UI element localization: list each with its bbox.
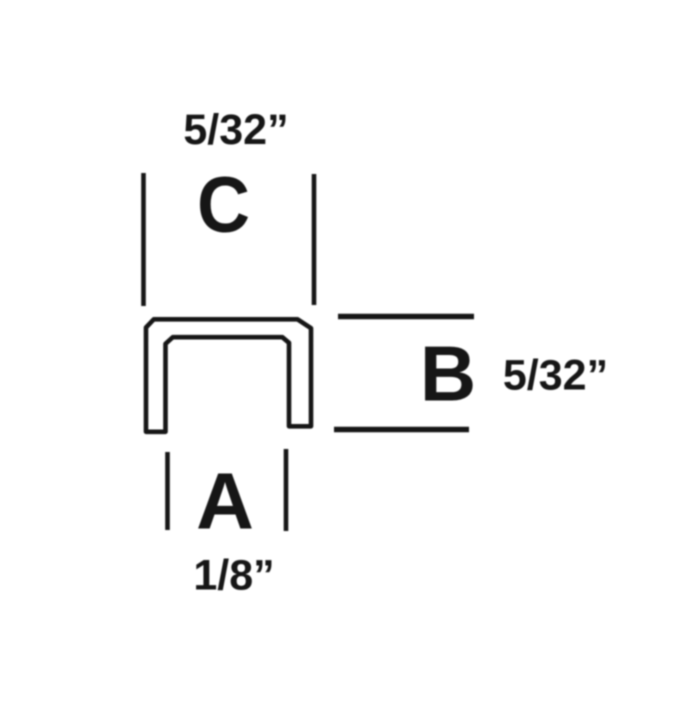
dimension B top line xyxy=(338,314,474,319)
svg-text:B: B xyxy=(420,330,476,418)
dimension A left tick xyxy=(165,452,170,530)
svg-text:5/32”: 5/32” xyxy=(183,106,288,154)
svg-text:C: C xyxy=(197,161,250,249)
dimension B bottom line xyxy=(334,427,469,432)
dimension C right tick xyxy=(312,174,317,305)
svg-text:A: A xyxy=(196,457,254,546)
staple cross-section outline xyxy=(146,319,311,432)
svg-text:5/32”: 5/32” xyxy=(503,352,608,400)
dimension C left tick xyxy=(141,173,146,306)
dimension A right tick xyxy=(284,449,289,531)
svg-text:1/8”: 1/8” xyxy=(193,552,274,600)
